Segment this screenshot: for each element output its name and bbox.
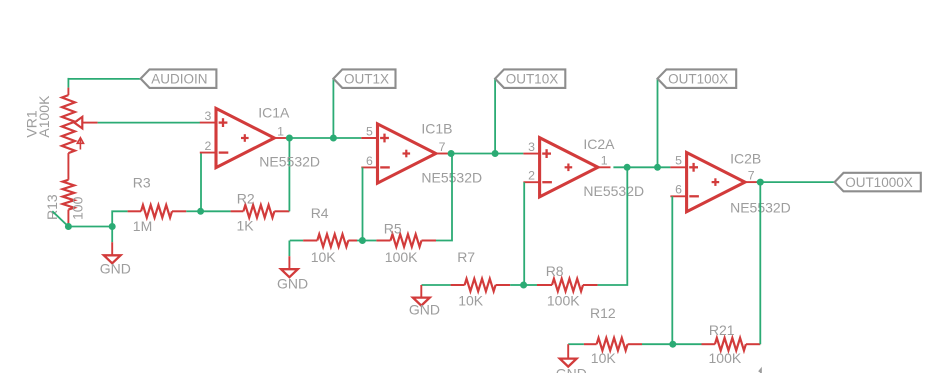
net flag OUT1000X (835, 173, 921, 192)
resistor R2 1K (231, 190, 290, 233)
svg-text:2: 2 (205, 139, 212, 153)
svg-text:R7: R7 (457, 249, 475, 265)
svg-text:1K: 1K (237, 218, 255, 234)
ground GND (input divider) (100, 227, 131, 277)
svg-text:OUT10X: OUT10X (506, 71, 559, 86)
svg-text:1M: 1M (133, 218, 152, 234)
net flag OUT10X (495, 69, 565, 88)
svg-text:GND: GND (277, 275, 308, 291)
resistor R3 1M (128, 174, 187, 234)
resistor R8 100K (537, 263, 598, 308)
svg-text:10K: 10K (311, 249, 337, 265)
svg-text:1: 1 (601, 154, 608, 168)
svg-text:R12: R12 (590, 305, 616, 321)
svg-text:IC2A: IC2A (583, 136, 615, 152)
wire R12 left to GND corner (568, 343, 584, 345)
resistor R5 100K (376, 221, 436, 266)
resistor R21 100K (702, 322, 761, 366)
node IC2B output junction (757, 179, 764, 186)
wire IC2B output to OUT1000X (757, 181, 835, 183)
svg-text:6: 6 (366, 154, 373, 168)
svg-text:100K: 100K (547, 292, 580, 308)
node IC2B feedback junction (669, 341, 676, 348)
wire up-corner to R3 left (112, 211, 127, 226)
wire R12 to feedback node (642, 343, 673, 345)
svg-text:10K: 10K (591, 350, 617, 366)
ground GND (R7) (409, 285, 440, 317)
svg-text:GND: GND (100, 261, 131, 277)
node R13 bottom junction (65, 223, 72, 230)
wire IC1B pin6 down to feedback node (362, 167, 364, 240)
op-amp IC2A NE5532D (523, 136, 644, 199)
node IC1A output junction (286, 135, 293, 142)
svg-text:GND: GND (409, 301, 440, 317)
wire AUDIOIN net: pot top to flag (68, 78, 140, 88)
op-amp IC1B NE5532D (361, 120, 482, 185)
svg-text:6: 6 (675, 183, 682, 197)
svg-text:R2: R2 (237, 190, 255, 206)
wire pot wiper to IC1A pin3 (98, 122, 200, 124)
svg-text:1: 1 (277, 124, 284, 138)
svg-text:IC2B: IC2B (730, 150, 761, 166)
potentiometer VR1 A100K (24, 88, 98, 180)
svg-text:NE5532D: NE5532D (583, 183, 644, 199)
resistor R13 100 (44, 180, 86, 226)
wire OUT1X tap up to flag (332, 78, 334, 138)
node IC1B output junction (448, 150, 455, 157)
ground GND (R4) (277, 241, 308, 292)
svg-text:5: 5 (675, 154, 682, 168)
wire R4 to feedback node (357, 240, 362, 242)
wire feedback node to R2 (201, 210, 231, 212)
wire IC1B output to IC2A pin3 (448, 153, 524, 155)
wire feedback node to R8 (524, 284, 537, 286)
wire R8 right up to IC2A output (598, 167, 628, 285)
wire R2 right up to IC1A output (288, 138, 290, 211)
svg-text:GND: GND (556, 365, 587, 373)
node GND rail junction (109, 223, 116, 230)
wire feedback node to R21 (673, 343, 702, 345)
wire OUT10X tap up to flag (494, 78, 496, 153)
node IC1B feedback junction (359, 237, 366, 244)
wire OUT100X tap up to flag (657, 79, 659, 167)
net flag OUT100X (658, 69, 737, 88)
svg-text:IC1A: IC1A (258, 105, 290, 121)
svg-text:R5: R5 (384, 221, 402, 237)
wire IC2B pin6 down to feedback node (671, 196, 673, 344)
net flag AUDIOIN (141, 69, 217, 88)
wire R5 right up to IC1B output (436, 154, 452, 241)
svg-text:10K: 10K (458, 293, 484, 309)
wire feedback node to R5 (362, 240, 376, 242)
node OUT1X tap junction (330, 135, 337, 142)
svg-text:5: 5 (366, 124, 373, 138)
op-amp IC2B NE5532D (670, 150, 790, 215)
wire R21 right up to IC2B output (759, 182, 761, 344)
ground GND (R12) (556, 344, 587, 373)
svg-text:AUDIOIN: AUDIOIN (151, 71, 207, 86)
node IC2A output junction (624, 164, 631, 171)
svg-text:7: 7 (748, 169, 755, 183)
wire R7 left to GND corner (422, 284, 451, 286)
svg-text:100K: 100K (709, 350, 742, 366)
wire R3 to feedback node (186, 210, 200, 212)
svg-text:3: 3 (528, 140, 535, 154)
svg-text:R3: R3 (133, 174, 151, 190)
node IC2A feedback junction (520, 282, 527, 289)
wire IC2A output to IC2B pin5 (613, 166, 670, 168)
node OUT100X tap junction (654, 164, 661, 171)
svg-text:A100K: A100K (36, 95, 52, 138)
wire IC1A output to IC1B pin5 (287, 137, 362, 139)
svg-text:R4: R4 (311, 205, 329, 221)
svg-text:NE5532D: NE5532D (259, 154, 320, 170)
node IC1A feedback junction (197, 208, 204, 215)
svg-text:2: 2 (528, 169, 535, 183)
resistor R12 10K (584, 305, 642, 366)
wire diagonal stub at R13 bottom (52, 211, 68, 226)
node OUT10X tap junction (492, 150, 499, 157)
svg-text:100K: 100K (385, 249, 418, 265)
svg-text:OUT1000X: OUT1000X (845, 175, 913, 190)
svg-text:100: 100 (70, 196, 86, 220)
svg-text:OUT1X: OUT1X (344, 71, 389, 86)
resistor R4 10K (303, 205, 357, 265)
op-amp IC1A NE5532D (200, 105, 320, 170)
wire IC2A pin2 down to feedback node (523, 182, 525, 285)
partial gray mark bottom right (cut-off text) (759, 369, 761, 373)
net flag OUT1X (333, 69, 395, 88)
svg-text:IC1B: IC1B (421, 120, 452, 136)
svg-text:R21: R21 (709, 322, 735, 338)
svg-text:R8: R8 (546, 263, 564, 279)
wire R4 left to GND corner (290, 240, 303, 242)
svg-text:7: 7 (439, 140, 446, 154)
wire IC1A pin2 down to feedback node (200, 153, 202, 212)
resistor R7 10K (451, 249, 511, 309)
wire bottom rail to GND junction (68, 226, 112, 228)
svg-text:3: 3 (205, 109, 212, 123)
wire R7 to feedback node (510, 284, 523, 286)
svg-text:OUT100X: OUT100X (668, 71, 728, 86)
